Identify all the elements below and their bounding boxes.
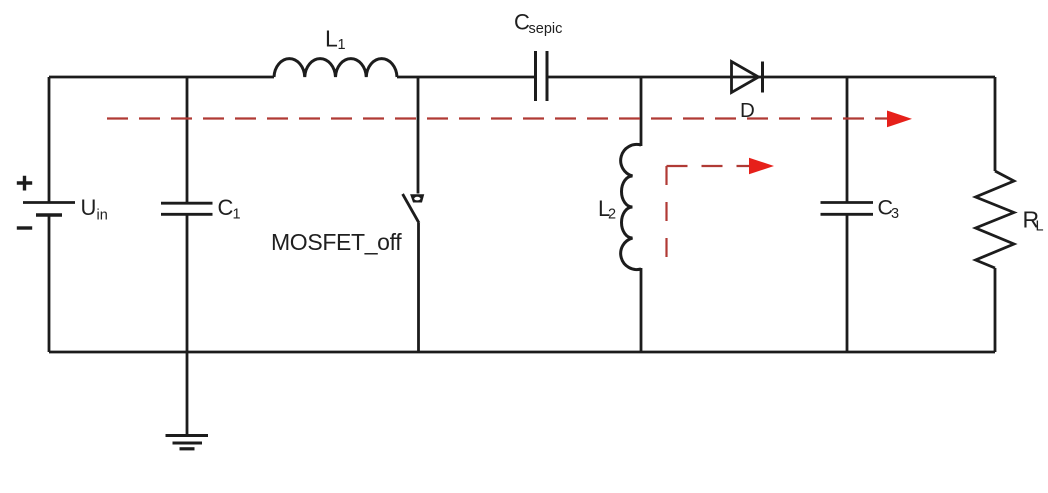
svg-text:L: L [1036,219,1044,235]
wire right: RL to bottom corner [994,268,997,352]
wire C3 branch upper [846,77,849,203]
wire right: top corner down to RL [994,77,997,171]
wire C3 branch lower [846,214,849,352]
svg-text:C: C [218,195,234,220]
inductor L1 [274,59,397,77]
capacitor C1 [161,202,213,205]
svg-text:L: L [325,26,338,52]
svg-text:U: U [81,195,97,220]
wire left: battery to bottom corner [48,215,51,352]
red dashed current path main [107,117,888,119]
wire top: Csepic to right corner [549,76,996,79]
wire L2 branch lower [640,268,643,352]
svg-text:2: 2 [608,207,616,223]
wire top: L1 to Csepic [397,76,534,79]
battery minus sign [17,226,32,229]
red arrowhead main [887,111,912,128]
svg-text:sepic: sepic [529,21,563,37]
svg-text:1: 1 [338,37,346,53]
red arrowhead L2 loop [749,158,774,175]
wire C1 branch upper [186,77,189,203]
red dashed current path L2 loop horizontal [667,165,750,167]
switch contact tip of MOSFET [411,195,424,202]
red dashed current path L2 loop vertical [665,166,667,258]
wire C1 branch lower [186,214,189,352]
svg-text:1: 1 [233,207,241,223]
wire MOSFET branch upper [417,77,420,194]
inductor L2 [621,144,641,269]
battery plus sign [17,176,32,191]
battery Uin [23,201,75,204]
svg-text:in: in [97,208,108,224]
wire left: top corner down to battery [48,77,51,202]
wire L2 branch upper [640,77,643,146]
capacitor C3 [821,201,874,204]
wire bottom [49,351,995,354]
switch blade of MOSFET (open) [403,194,419,223]
wire MOSFET branch lower [417,223,420,352]
ground [166,436,209,449]
wire ground stub [186,352,189,435]
wire top: left corner to L1 [49,76,274,79]
svg-text:3: 3 [891,206,899,222]
capacitor Csepic [534,51,537,101]
diode D [732,62,759,93]
svg-text:MOSFET_off: MOSFET_off [271,229,402,255]
resistor RL [976,171,1014,268]
